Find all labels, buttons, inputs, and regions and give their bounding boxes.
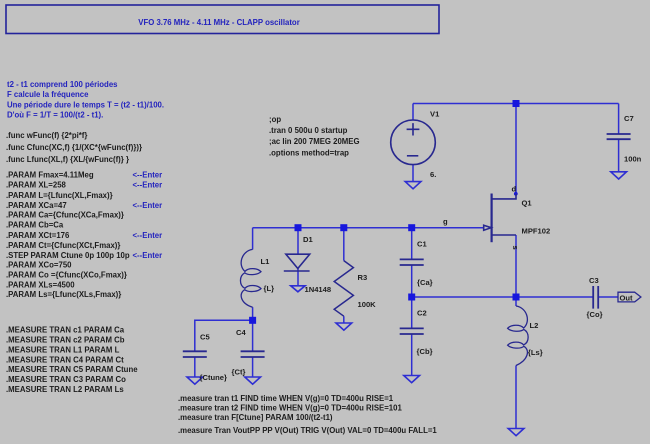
- svg-text:;ac lin 200 7MEG 20MEG: ;ac lin 200 7MEG 20MEG: [269, 137, 360, 146]
- svg-text:.MEASURE TRAN C5 PARAM Ctune: .MEASURE TRAN C5 PARAM Ctune: [6, 365, 138, 374]
- svg-text:.MEASURE TRAN C3 PARAM Co: .MEASURE TRAN C3 PARAM Co: [6, 375, 126, 384]
- svg-text:.PARAM Ca={Cfunc(XCa,Fmax)}: .PARAM Ca={Cfunc(XCa,Fmax)}: [6, 211, 124, 220]
- svg-text:d: d: [512, 185, 517, 194]
- svg-text:s: s: [511, 246, 520, 250]
- svg-text:MPF102: MPF102: [522, 227, 551, 236]
- svg-text:.PARAM XLs=4500: .PARAM XLs=4500: [6, 280, 75, 289]
- svg-text:L1: L1: [261, 257, 271, 266]
- svg-text:.measure tran t2 FIND time WHE: .measure tran t2 FIND time WHEN V(g)=0 T…: [178, 404, 402, 413]
- svg-text:.MEASURE TRAN L2 PARAM Ls: .MEASURE TRAN L2 PARAM Ls: [6, 385, 124, 394]
- svg-text:<--Enter: <--Enter: [133, 201, 163, 210]
- svg-text:{Co}: {Co}: [587, 310, 603, 319]
- svg-text:.PARAM Cb=Ca: .PARAM Cb=Ca: [6, 221, 64, 230]
- svg-text:{Ctune}: {Ctune}: [200, 373, 227, 382]
- svg-text:{Cb}: {Cb}: [417, 347, 433, 356]
- svg-text:t2 - t1 comprend 100 périodes: t2 - t1 comprend 100 périodes: [7, 80, 118, 89]
- svg-text:{Ct}: {Ct}: [232, 367, 246, 376]
- svg-text:{Ls}: {Ls}: [528, 348, 543, 357]
- svg-text:C7: C7: [624, 114, 634, 123]
- svg-text:{Ca}: {Ca}: [417, 278, 433, 287]
- svg-text:Out: Out: [620, 293, 634, 302]
- svg-text:.func Lfunc(XL,f) {XL/{wFunc(f: .func Lfunc(XL,f) {XL/{wFunc(f)} }: [6, 155, 129, 164]
- svg-text:100n: 100n: [624, 155, 642, 164]
- svg-text:C3: C3: [589, 276, 599, 285]
- svg-text:6.: 6.: [430, 170, 436, 179]
- svg-text:.MEASURE TRAN c1 PARAM Ca: .MEASURE TRAN c1 PARAM Ca: [6, 326, 125, 335]
- svg-text:1N4148: 1N4148: [305, 285, 332, 294]
- svg-text:C5: C5: [200, 333, 210, 342]
- svg-text:.MEASURE TRAN L1 PARAM L: .MEASURE TRAN L1 PARAM L: [6, 345, 120, 354]
- svg-text:.MEASURE TRAN c2 PARAM Cb: .MEASURE TRAN c2 PARAM Cb: [6, 336, 125, 345]
- svg-text:.PARAM XL=258: .PARAM XL=258: [6, 181, 67, 190]
- svg-text:;op: ;op: [269, 115, 281, 124]
- svg-text:D1: D1: [303, 235, 313, 244]
- svg-text:g: g: [443, 217, 448, 226]
- svg-text:<--Enter: <--Enter: [133, 171, 163, 180]
- svg-text:.PARAM Ls={Lfunc(XLs,Fmax)}: .PARAM Ls={Lfunc(XLs,Fmax)}: [6, 290, 121, 299]
- svg-text:.PARAM XCo=750: .PARAM XCo=750: [6, 261, 72, 270]
- svg-text:.options method=trap: .options method=trap: [269, 149, 349, 158]
- svg-text:.PARAM XCa=47: .PARAM XCa=47: [6, 201, 67, 210]
- svg-text:V1: V1: [430, 110, 440, 119]
- svg-text:.measure Tran VoutPP PP V(Out): .measure Tran VoutPP PP V(Out) TRIG V(Ou…: [178, 426, 437, 435]
- svg-text:.tran 0 500u 0 startup: .tran 0 500u 0 startup: [269, 126, 348, 135]
- svg-text:L2: L2: [530, 321, 539, 330]
- svg-text:C1: C1: [417, 240, 427, 249]
- svg-text:.PARAM Co ={Cfunc(XCo,Fmax)}: .PARAM Co ={Cfunc(XCo,Fmax)}: [6, 271, 127, 280]
- svg-text:.PARAM Fmax=4.11Meg: .PARAM Fmax=4.11Meg: [6, 171, 94, 180]
- svg-text:{L}: {L}: [264, 284, 275, 293]
- svg-text:.PARAM L={Lfunc(XL,Fmax)}: .PARAM L={Lfunc(XL,Fmax)}: [6, 191, 113, 200]
- svg-text:<--Enter: <--Enter: [133, 181, 163, 190]
- svg-text:.MEASURE TRAN C4 PARAM Ct: .MEASURE TRAN C4 PARAM Ct: [6, 355, 124, 364]
- svg-text:.measure tran t1 FIND time WHE: .measure tran t1 FIND time WHEN V(g)=0 T…: [178, 394, 394, 403]
- svg-text:.STEP PARAM Ctune 0p 100p 10p: .STEP PARAM Ctune 0p 100p 10p: [6, 251, 130, 260]
- svg-text:.PARAM Ct={Cfunc(XCt,Fmax)}: .PARAM Ct={Cfunc(XCt,Fmax)}: [6, 241, 120, 250]
- svg-text:<--Enter: <--Enter: [133, 251, 163, 260]
- svg-text:R3: R3: [358, 273, 368, 282]
- svg-text:F calcule la fréquence: F calcule la fréquence: [7, 90, 89, 99]
- svg-text:Q1: Q1: [522, 199, 533, 208]
- svg-text:.func Cfunc(XC,f) {1/(XC*{wFun: .func Cfunc(XC,f) {1/(XC*{wFunc(f)})}: [6, 143, 142, 152]
- svg-text:.func wFunc(f) {2*pi*f}: .func wFunc(f) {2*pi*f}: [6, 131, 87, 140]
- svg-text:D'où F = 1/T = 100/(t2 - t1).: D'où F = 1/T = 100/(t2 - t1).: [7, 111, 103, 120]
- svg-text:<--Enter: <--Enter: [133, 231, 163, 240]
- svg-text:C2: C2: [417, 309, 427, 318]
- svg-text:VFO 3.76 MHz - 4.11 MHz - CLAP: VFO 3.76 MHz - 4.11 MHz - CLAPP oscillat…: [138, 18, 299, 27]
- svg-text:.PARAM XCt=176: .PARAM XCt=176: [6, 231, 70, 240]
- svg-text:Une période dure le temps T =: Une période dure le temps T = (t2 - t1)/…: [7, 100, 164, 109]
- svg-text:100K: 100K: [358, 300, 377, 309]
- svg-text:.measure tran F[Ctune] PARAM 1: .measure tran F[Ctune] PARAM 100/(t2-t1): [178, 413, 333, 422]
- svg-text:C4: C4: [236, 328, 246, 337]
